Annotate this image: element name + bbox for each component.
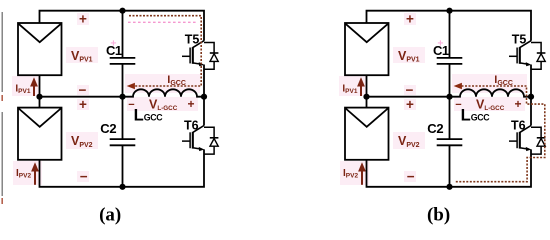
svg-text:(a): (a) (99, 205, 121, 226)
svg-text:(b): (b) (427, 205, 450, 226)
